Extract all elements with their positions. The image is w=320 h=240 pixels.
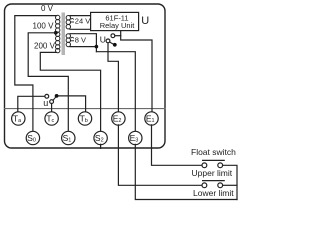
transformer primary winding [56,15,60,53]
stub S2 to box bottom [100,144,102,148]
terminal Ta [12,112,25,125]
svg-text:Upper limit: Upper limit [192,168,233,178]
terminal Tb [78,112,91,125]
wire Uo circle to relay pin [115,35,121,37]
wire 8V winding top [70,34,96,52]
wire Ta riser to contact u [18,96,45,112]
wire 200V tap to S2 [40,52,100,131]
terminal E3 [129,131,142,144]
svg-text:100 V: 100 V [33,22,55,31]
AC symbol 24V [70,18,74,22]
lower limit switch contact [203,180,225,182]
wire E1 to upper limit switch [152,125,202,166]
wire upper limit to right bus [223,165,237,199]
wire 24V winding top to relay unit box [70,15,91,17]
wire 8V to E3 [96,52,135,131]
terminal S2 [94,131,107,144]
primary 100V tap junction dot [54,31,58,35]
svg-text:0 V: 0 V [41,4,54,13]
svg-text:Relay Unit: Relay Unit [100,21,136,30]
svg-text:8 V: 8 V [75,35,86,44]
contact Uo blade dot [113,43,117,47]
wire 0V tap to S0 [15,16,57,132]
svg-text:u: u [43,98,48,108]
wire contact u to Tc [51,104,53,113]
wire 100V tap to S1 [28,33,68,131]
junction dot 8V [95,45,99,49]
transformer secondary winding 24V [66,16,70,29]
relay unit box 61F-11 [91,12,139,30]
relay pin wire to E1 [121,31,152,112]
upper limit switch contact [203,159,225,161]
terminal S1 [62,131,75,144]
AC symbol 8V [70,37,74,41]
outer unit rounded box [5,4,166,148]
terminal Tc [45,112,58,125]
contact u lower terminal circle [50,100,54,104]
wire E3 to right bus [135,144,237,199]
svg-text:24 V: 24 V [75,17,90,26]
svg-text:Float switch: Float switch [191,147,236,157]
svg-text:200 V: 200 V [34,42,56,51]
terminal E1 [145,112,158,125]
wire 8V winding bottom [70,46,96,48]
transformer secondary winding 8V [66,34,70,47]
transformer core [62,13,66,56]
wire 24V winding bottom to relay unit box [70,28,91,30]
contact u blade [53,97,56,101]
contact Uo blade [110,42,115,45]
wire E2 to lower limit switch [118,125,201,186]
contact Uo fixed circle [111,34,115,38]
wire Uo moving terminal down to E2 [108,43,118,112]
terminal S0 [26,131,39,144]
terminal strip separator line [5,108,166,110]
contact u blade dot [55,94,59,98]
wire contact u dot to Tb [59,96,86,112]
svg-text:U: U [141,15,149,27]
contact u left fixed circle [45,94,49,98]
wire lower limit to right bus [223,184,237,186]
terminal labels [13,114,155,144]
contact Uo moving terminal circle [106,39,110,43]
svg-text:U: U [100,35,106,45]
terminal E2 [112,112,125,125]
svg-text:Lower limit: Lower limit [193,188,234,198]
